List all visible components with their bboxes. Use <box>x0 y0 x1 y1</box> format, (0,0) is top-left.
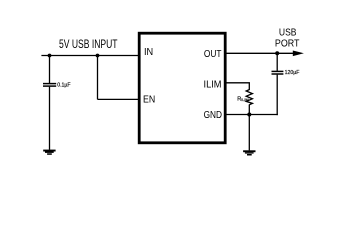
wire ILIM vertical to resistor <box>248 83 250 90</box>
svg-text:EN: EN <box>143 94 155 106</box>
svg-text:0.1µF: 0.1µF <box>57 82 70 88</box>
svg-text:IN: IN <box>144 46 153 58</box>
junction dot at C1 <box>48 54 52 58</box>
resistor RILIM <box>246 90 252 105</box>
svg-text:ILIM: ILIM <box>204 78 222 90</box>
wire input horizontal to IN pin <box>41 55 139 57</box>
wire C2 upper lead <box>276 53 278 71</box>
svg-text:RILIM: RILIM <box>237 96 248 102</box>
svg-text:GND: GND <box>204 109 223 121</box>
wire OUT to USB port <box>225 52 295 54</box>
svg-text:5V USB INPUT: 5V USB INPUT <box>59 39 118 51</box>
ground (right) <box>243 150 255 155</box>
svg-text:120µF: 120µF <box>285 70 300 76</box>
arrow to USB port <box>293 51 304 57</box>
junction dot at C2 <box>275 51 279 55</box>
capacitor C2 120uF plates <box>272 70 284 72</box>
op-amp U1 (regulator IC box) <box>139 33 225 143</box>
wire C1 lower lead <box>49 87 51 150</box>
capacitor C1 0.1uF plates <box>43 83 56 85</box>
wire C1 upper lead <box>49 56 51 84</box>
wire ILIM horizontal <box>225 82 250 84</box>
wire EN branch vertical <box>97 56 99 100</box>
wire GND horizontal <box>225 114 278 116</box>
junction dot at EN branch <box>96 54 100 58</box>
svg-text:PORT: PORT <box>275 39 300 50</box>
svg-text:OUT: OUT <box>204 48 222 60</box>
svg-text:USB: USB <box>279 28 297 39</box>
ground (left) <box>43 150 55 155</box>
junction dot at resistor/GND <box>247 113 251 117</box>
wire EN horizontal to EN pin <box>98 98 140 100</box>
wire resistor lower lead <box>248 105 250 151</box>
wire C2 lower lead <box>276 75 278 116</box>
